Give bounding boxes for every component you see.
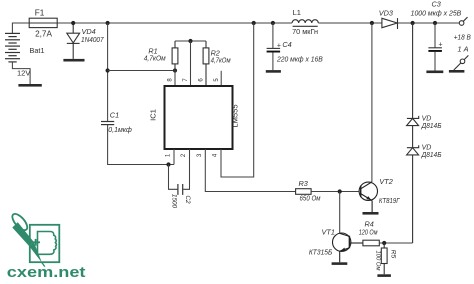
- svg-text:6: 6: [199, 78, 205, 82]
- svg-text:C1: C1: [110, 111, 119, 120]
- node rail-pin4: [252, 21, 256, 25]
- svg-text:VD: VD: [422, 145, 432, 152]
- capacitor C2: [178, 184, 183, 195]
- fuse F1: [29, 18, 57, 27]
- svg-text:VT1: VT1: [322, 228, 335, 237]
- svg-text:Д814Б: Д814Б: [421, 123, 442, 130]
- node Vcc branch: [106, 68, 110, 72]
- node gnd-C2: [166, 162, 170, 166]
- svg-text:LM555: LM555: [230, 104, 239, 127]
- zener VD1: [407, 23, 419, 148]
- svg-text:0,1мкф: 0,1мкф: [108, 125, 132, 134]
- svg-text:120 Ом: 120 Ом: [359, 228, 378, 237]
- wire R4 to zener net: [379, 242, 412, 244]
- wire Vcc to pin8: [108, 70, 175, 72]
- wire R3 to VT2 base: [311, 191, 361, 193]
- resistor R5: [381, 243, 387, 274]
- svg-text:+: +: [277, 42, 281, 49]
- ground VT2: [363, 212, 379, 215]
- wire C2 left branch: [169, 165, 178, 190]
- node pin8-R1: [173, 68, 177, 72]
- resistor R2: [203, 41, 209, 86]
- wire pin7: [190, 41, 192, 86]
- svg-text:4: 4: [213, 153, 219, 157]
- wire pin4 to rail: [221, 23, 254, 177]
- node rail-zener: [411, 21, 415, 25]
- zener VD2: [407, 145, 419, 243]
- svg-text:R5: R5: [390, 250, 397, 259]
- wire pin5 stub: [220, 71, 222, 86]
- svg-text:F1: F1: [35, 8, 45, 17]
- svg-text:C4: C4: [282, 40, 291, 49]
- node pin7: [188, 39, 192, 43]
- svg-text:+: +: [439, 42, 443, 49]
- svg-text:2: 2: [181, 153, 187, 157]
- battery Bat1: [5, 33, 20, 62]
- svg-text:КТ819Г: КТ819Г: [379, 196, 400, 205]
- node rail-C4: [271, 21, 275, 25]
- svg-text:5: 5: [214, 78, 220, 82]
- svg-text:2,7A: 2,7A: [35, 30, 52, 39]
- svg-text:R3: R3: [299, 179, 308, 188]
- terminal minus: [454, 55, 469, 70]
- svg-text:1500: 1500: [170, 194, 177, 209]
- svg-text:1: 1: [166, 153, 172, 157]
- resistor R3: [296, 189, 312, 195]
- capacitor C3: [434, 23, 436, 48]
- svg-text:VT2: VT2: [379, 177, 392, 186]
- resistor R1: [172, 41, 178, 71]
- wire pin3 to R3: [205, 149, 295, 192]
- svg-text:КТ315Б: КТ315Б: [309, 248, 333, 257]
- terminal +18V: [459, 17, 467, 25]
- node rail-C1branch: [106, 21, 110, 25]
- node rail-VT2: [370, 21, 374, 25]
- wire top rail left: [12, 23, 292, 33]
- op-amp U1 IC1 box: [165, 86, 233, 149]
- svg-text:L1: L1: [293, 8, 301, 17]
- wire R1R2 top: [175, 40, 206, 42]
- svg-text:220 мкф х 16В: 220 мкф х 16В: [276, 55, 323, 64]
- wire top rail right: [398, 22, 461, 24]
- svg-text:1N4007: 1N4007: [81, 35, 104, 44]
- svg-text:650 Ом: 650 Ом: [300, 194, 321, 203]
- wire battery minus: [12, 62, 30, 84]
- node R3-VT1-VT2: [338, 189, 342, 193]
- svg-text:IC1: IC1: [149, 109, 158, 121]
- wire VT1 collector vertical: [339, 192, 341, 234]
- capacitor C4: [272, 23, 274, 48]
- resistor R4: [363, 240, 379, 246]
- svg-text:cxem.net: cxem.net: [7, 264, 86, 281]
- ground C3: [426, 71, 443, 74]
- svg-text:8: 8: [168, 78, 174, 82]
- transistor VT2: [359, 182, 377, 212]
- diode VD4: [67, 23, 80, 59]
- ground R5: [377, 274, 391, 277]
- inductor L1: [292, 20, 318, 27]
- svg-text:3: 3: [197, 153, 203, 157]
- svg-text:VD: VD: [422, 115, 432, 122]
- svg-text:70 мкГн: 70 мкГн: [292, 27, 318, 36]
- wire top rail mid: [318, 22, 382, 24]
- logo cxem.net emblem: [10, 211, 60, 262]
- wire C1 to gnd-net: [108, 125, 174, 165]
- wire pin8 stub: [174, 71, 176, 87]
- svg-text:100 Ом: 100 Ом: [375, 251, 382, 271]
- ground C4: [266, 70, 281, 73]
- diode VD3: [382, 18, 398, 29]
- ground VT1: [332, 262, 348, 265]
- node R4-R5: [382, 241, 386, 245]
- ground battery: [18, 84, 41, 87]
- svg-text:12V: 12V: [17, 69, 30, 78]
- svg-text:VD3: VD3: [379, 8, 393, 17]
- svg-text:7: 7: [183, 78, 189, 82]
- svg-text:1 А: 1 А: [458, 45, 469, 54]
- ground terminal: [449, 70, 465, 73]
- node rail-VD4: [71, 21, 75, 25]
- svg-text:4,7кОм: 4,7кОм: [144, 53, 166, 62]
- wire C1 branch vertical: [107, 23, 109, 121]
- wire pin2 to C2: [183, 149, 189, 189]
- capacitor C1: [101, 122, 114, 125]
- svg-text:4,7кОм: 4,7кОм: [211, 56, 231, 65]
- svg-text:Bat1: Bat1: [30, 46, 45, 55]
- wire pin1 stub: [173, 149, 175, 165]
- svg-text:C2: C2: [184, 195, 191, 204]
- svg-text:1000 мкф х 25В: 1000 мкф х 25В: [411, 9, 462, 18]
- node rail-C3: [433, 21, 437, 25]
- wire VT2 collector vertical: [371, 23, 373, 182]
- svg-text:C3: C3: [432, 0, 441, 9]
- ground VD4: [63, 59, 84, 62]
- svg-text:+18 В: +18 В: [454, 33, 471, 42]
- svg-text:Д814Б: Д814Б: [421, 152, 442, 159]
- transistor VT1: [333, 233, 363, 262]
